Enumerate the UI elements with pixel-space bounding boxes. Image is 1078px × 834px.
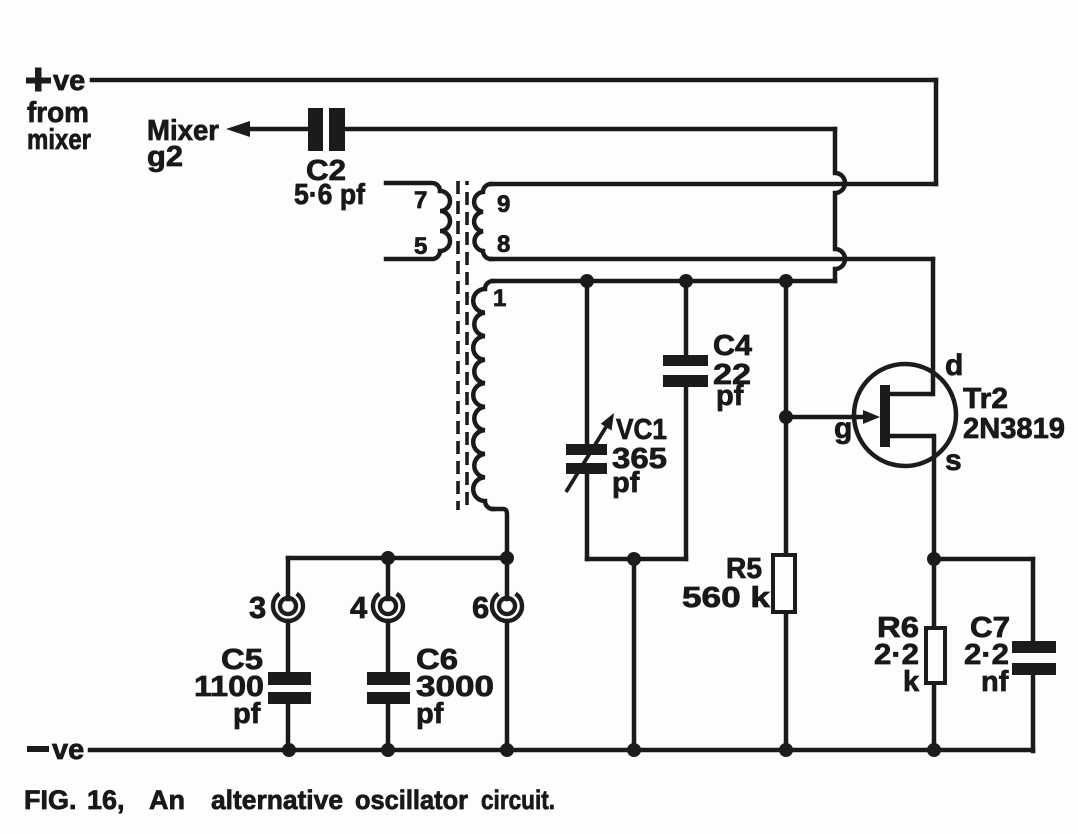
node pin-1 row / VC1 (580, 274, 594, 288)
svg-text:3: 3 (249, 590, 266, 625)
capacitor C7 plates (1012, 641, 1056, 675)
svg-text:s: s (945, 444, 962, 477)
node -ve rail / C5 (282, 743, 296, 757)
svg-text:6: 6 (472, 590, 489, 625)
svg-text:16,: 16, (87, 785, 125, 815)
wire gate lead (786, 415, 866, 420)
wire terminal 4 drop (386, 558, 391, 750)
node pin-1 row / R5 (779, 274, 793, 288)
svg-text:k: k (903, 666, 920, 698)
node -ve rail / tank (627, 743, 641, 757)
capacitor C4 plates (663, 355, 708, 387)
svg-text:7: 7 (414, 187, 427, 214)
transformer T1 tuned winding pin 1 (473, 281, 493, 509)
svg-text:oscillator: oscillator (355, 785, 468, 815)
transistor Tr2 gate bar (880, 385, 890, 447)
svg-text:nf: nf (981, 666, 1009, 698)
svg-text:alternative: alternative (211, 785, 343, 815)
capacitor C5 plates (268, 672, 311, 704)
svg-text:5: 5 (414, 233, 427, 260)
wire terminal row (288, 556, 507, 561)
svg-text:Tr2: Tr2 (963, 383, 1008, 415)
svg-text:pf: pf (416, 698, 444, 730)
svg-text:C4: C4 (713, 330, 752, 362)
wire VC1 branch lower (585, 474, 590, 559)
capacitor C2 plates (308, 108, 345, 151)
terminal 6 socket (492, 594, 522, 621)
svg-text:pf: pf (233, 698, 261, 730)
wire C7 vertical lower (1031, 675, 1036, 751)
svg-text:mixer: mixer (27, 124, 91, 156)
mixer arrowhead (226, 121, 250, 137)
wire R6-C7 top link (934, 557, 1033, 562)
transistor Tr2 body circle (854, 364, 956, 466)
node -ve rail / C6 (381, 743, 395, 757)
resistor R6 body (926, 628, 945, 683)
transformer T1 core dashed line right (465, 181, 469, 510)
svg-text:circuit.: circuit. (481, 785, 555, 815)
wire terminal 6 drop (505, 558, 510, 750)
wire tank bottom vertical (632, 559, 637, 750)
transformer T1 secondary winding pins 9-8 (474, 184, 491, 259)
svg-text:pf: pf (612, 467, 640, 499)
wire C7 vertical upper (1031, 559, 1036, 641)
wire source vertical (932, 436, 937, 750)
wire coil bottom bend (493, 509, 507, 558)
label +ve (26, 68, 51, 92)
resistor R5 body (773, 555, 795, 612)
svg-text:560 k: 560 k (682, 582, 771, 614)
wire drain vertical (931, 259, 936, 394)
svg-text:ve: ve (52, 734, 84, 766)
svg-text:ve: ve (53, 65, 85, 97)
node -ve rail / R5 (779, 743, 793, 757)
node gate junction (779, 410, 793, 424)
node terminal row / 6 (500, 551, 514, 565)
wire -ve rail (90, 748, 1033, 753)
variable capacitor VC1 plates (566, 444, 607, 474)
transistor Tr2 source lead (890, 434, 934, 439)
node -ve rail / terminal 6 (500, 743, 514, 757)
svg-text:An: An (149, 785, 185, 815)
wire C2 to right (345, 127, 835, 132)
transistor Tr2 gate arrowhead (863, 410, 880, 424)
wire R5 branch vertical (784, 281, 789, 750)
wire terminal 3 drop (286, 558, 291, 750)
svg-text:R5: R5 (726, 553, 762, 585)
svg-text:VC1: VC1 (616, 414, 667, 446)
transformer T1 primary winding pins 7-5 (386, 183, 450, 259)
svg-text:8: 8 (497, 231, 510, 258)
wire C4 branch lower (684, 387, 689, 559)
node pin-1 row / C4 (679, 274, 693, 288)
terminal 4 socket (373, 594, 403, 621)
wire VC1 branch upper (585, 281, 590, 444)
transistor Tr2 drain lead (890, 392, 933, 397)
wire C2 vertical with hops (835, 129, 845, 281)
svg-text:pf: pf (716, 380, 744, 412)
svg-text:2N3819: 2N3819 (963, 413, 1065, 445)
node source / R6-C7 junction (927, 552, 941, 566)
transformer T1 core dashed line left (456, 181, 460, 510)
terminal 3 socket (273, 594, 303, 621)
svg-text:9: 9 (497, 191, 510, 218)
wire +ve rail (92, 78, 936, 83)
svg-text:g2: g2 (147, 141, 183, 173)
wire C4 branch upper (684, 281, 689, 355)
label -ve (27, 746, 49, 752)
variable capacitor VC1 arrow (566, 427, 606, 492)
svg-text:4: 4 (350, 590, 368, 625)
svg-text:FIG.: FIG. (24, 785, 77, 815)
svg-text:5·6 pf: 5·6 pf (294, 179, 365, 211)
wire pin-8 row (491, 257, 933, 262)
wire pin-1 row (493, 279, 835, 284)
node terminal row / 4 (381, 551, 395, 565)
svg-text:g: g (834, 412, 852, 445)
svg-text:d: d (945, 349, 963, 382)
node tank bottom junction (627, 552, 641, 566)
wire pin-9 row (491, 182, 936, 187)
wire +ve rail right vertical drop (934, 80, 939, 184)
wire VC1-C4 bottom row (587, 557, 686, 562)
svg-text:1: 1 (493, 285, 506, 312)
capacitor C6 plates (367, 672, 410, 704)
wire mixer arrow line (238, 127, 308, 132)
node -ve rail / R6 (927, 743, 941, 757)
